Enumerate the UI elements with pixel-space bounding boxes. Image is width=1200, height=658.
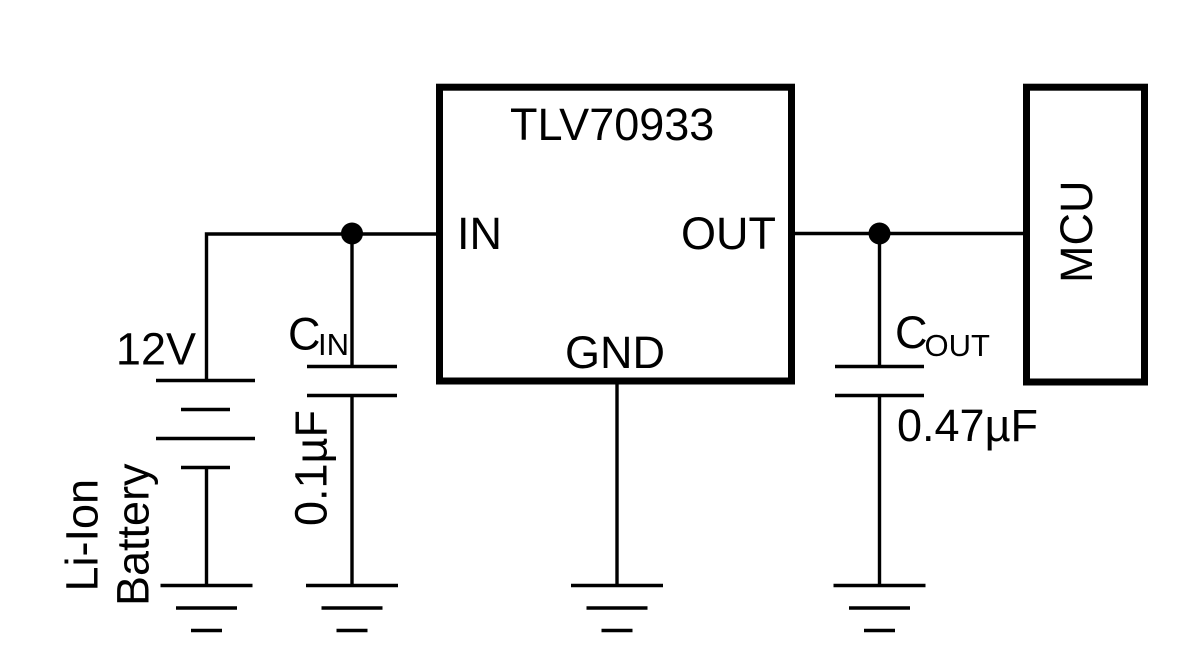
svg-text:0.47µF: 0.47µF xyxy=(897,400,1038,451)
svg-text:C: C xyxy=(288,309,321,360)
svg-text:MCU: MCU xyxy=(1051,181,1102,283)
svg-text:C: C xyxy=(895,307,928,358)
svg-text:IN: IN xyxy=(457,208,502,259)
svg-text:IN: IN xyxy=(318,327,349,362)
svg-text:Battery: Battery xyxy=(108,463,159,606)
svg-text:OUT: OUT xyxy=(925,328,991,363)
svg-text:TLV70933: TLV70933 xyxy=(510,99,714,150)
svg-text:GND: GND xyxy=(565,327,665,378)
svg-text:0.1µF: 0.1µF xyxy=(286,410,337,526)
svg-text:12V: 12V xyxy=(116,324,196,375)
svg-text:OUT: OUT xyxy=(681,208,776,259)
svg-text:Li-Ion: Li-Ion xyxy=(57,479,108,592)
